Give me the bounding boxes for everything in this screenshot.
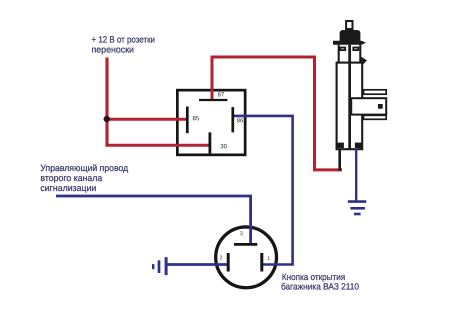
svg-text:сигнализации: сигнализации — [40, 183, 96, 193]
relay pin 85 bar — [186, 107, 189, 134]
svg-text:+ 12 В от розетки: + 12 В от розетки — [92, 35, 156, 45]
pin label 1 — [268, 256, 270, 260]
connector contact square — [378, 104, 383, 109]
collar bar with pointed right tip — [333, 41, 366, 45]
window slot right — [353, 48, 358, 51]
pin label 2 — [220, 256, 222, 260]
svg-text:Кнопка открытия: Кнопка открытия — [282, 272, 345, 282]
terminal block left — [336, 143, 344, 148]
relay pin 30 bar — [208, 132, 211, 153]
window slot left — [340, 48, 345, 51]
neck left border — [338, 45, 340, 64]
dome black — [340, 30, 361, 41]
wire control (blue) to button pin 3 — [56, 196, 251, 244]
connector upper rib — [364, 90, 387, 94]
pin label 86 — [237, 118, 243, 122]
actuator left lead (black) — [338, 149, 341, 171]
pin label 87 — [218, 92, 224, 96]
svg-text:багажника ВАЗ 2110: багажника ВАЗ 2110 — [281, 282, 359, 292]
button pin 3 bar — [234, 243, 257, 246]
junction node dot — [104, 116, 110, 122]
button pin 2 bar — [227, 253, 230, 272]
terminal block right — [355, 143, 362, 148]
actuator right lead to ground (blue) — [355, 149, 357, 202]
knob top — [346, 21, 352, 29]
button pin 1 bar — [260, 253, 263, 272]
relay pin 87 bar — [199, 99, 227, 101]
wire +12V vertical red — [105, 58, 108, 147]
relay K1 body — [177, 90, 245, 155]
wire branch to relay pin 85 — [106, 118, 188, 121]
hook right — [361, 57, 367, 65]
central shaft — [348, 45, 351, 149]
label +12V source — [92, 35, 156, 55]
svg-text:переноски: переноски — [92, 44, 135, 54]
pin label 85 — [193, 116, 199, 120]
connector main — [351, 98, 386, 114]
actuator A1 (trunk lock solenoid) — [333, 21, 386, 149]
relay pin 86 bar — [231, 107, 234, 132]
wire ground to button pin 2 (blue) — [166, 263, 228, 266]
svg-text:Управляющий провод: Управляющий провод — [40, 163, 129, 173]
wire branch to relay pin 30 — [106, 144, 210, 147]
ground G1 (button side, horizontal) — [153, 257, 166, 275]
svg-text:второго канала: второго канала — [40, 173, 102, 183]
button S1 circle — [216, 227, 277, 288]
neck right border — [359, 45, 361, 64]
label button caption — [281, 272, 359, 292]
wire relay pin 86 to button pin 1 (blue) — [234, 116, 293, 265]
pin label 3 — [240, 231, 243, 235]
connector lower rib — [364, 115, 387, 119]
pin label 30 — [221, 144, 227, 148]
ground G2 (actuator) — [348, 202, 367, 214]
body — [337, 63, 363, 150]
label control wire — [40, 163, 129, 193]
wire relay pin 87 to actuator (red) — [212, 57, 342, 170]
